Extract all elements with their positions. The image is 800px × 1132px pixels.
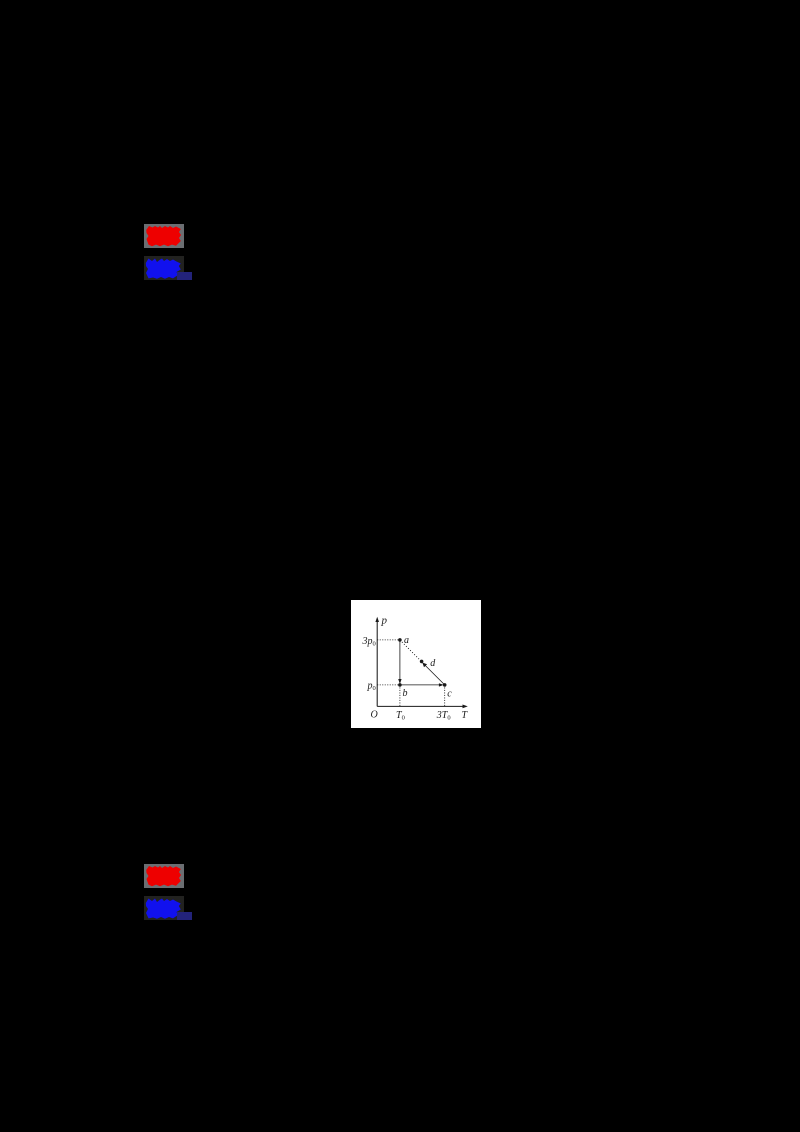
- p-T diagram (white panel): [351, 600, 481, 729]
- svg-text:T0: T0: [396, 710, 405, 722]
- point d: [420, 659, 424, 663]
- point b: [398, 683, 402, 687]
- svg-text:d: d: [430, 658, 436, 669]
- answer label 1 (red on gray): [144, 224, 184, 248]
- x axis arrowhead: [463, 704, 468, 708]
- svg-text:3p0: 3p0: [362, 636, 376, 648]
- y axis arrowhead: [375, 616, 379, 621]
- dotted guide c to 3T0: [444, 685, 446, 707]
- point c: [443, 683, 447, 687]
- arrowhead at c (right): [439, 683, 444, 686]
- dotted guide 3p0 to a: [377, 639, 400, 641]
- dotted guide p0 to b: [377, 684, 400, 686]
- arrowhead at d (up-left): [422, 662, 427, 667]
- svg-text:3T0: 3T0: [436, 710, 451, 722]
- navy tail 2: [177, 912, 193, 920]
- svg-text:a: a: [404, 635, 409, 646]
- svg-text:O: O: [371, 709, 378, 720]
- analysis label 2 (blue on dark): [144, 896, 184, 920]
- process b to c (horizontal, arrow at c): [400, 684, 441, 686]
- x axis: [377, 705, 464, 707]
- dotted guide b to T0: [399, 685, 401, 707]
- svg-text:c: c: [447, 688, 452, 699]
- process a to b (vertical, arrow at b): [399, 640, 401, 681]
- answer label 2 (red on gray): [144, 864, 184, 888]
- dashed segment a to d: [400, 640, 422, 662]
- analysis label 1 (blue on dark): [144, 256, 184, 280]
- point a: [398, 638, 402, 642]
- y axis: [376, 619, 378, 706]
- arrowhead at b (down): [398, 679, 401, 684]
- navy tail 1: [177, 272, 193, 280]
- svg-text:p: p: [381, 614, 388, 626]
- process c to d (solid, arrow at d): [424, 664, 444, 684]
- svg-text:b: b: [403, 688, 408, 699]
- svg-text:p0: p0: [367, 680, 376, 692]
- svg-text:T: T: [462, 710, 469, 721]
